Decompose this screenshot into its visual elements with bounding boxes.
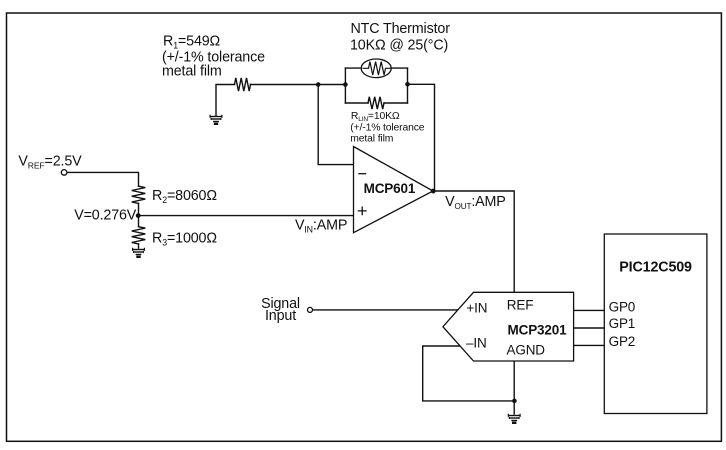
svg-text:VOUT:AMP: VOUT:AMP (445, 194, 506, 211)
wire R1 to thermistor loop (251, 84, 346, 86)
wire ADC -IN loop to ground node (423, 346, 515, 401)
svg-text:RLIN=10KΩ: RLIN=10KΩ (351, 111, 400, 123)
svg-text:R1=549Ω: R1=549Ω (163, 34, 221, 51)
svg-text:R2=8060Ω: R2=8060Ω (152, 188, 217, 205)
svg-text:+IN: +IN (466, 300, 487, 315)
wire thermistor loop top rail (345, 67, 407, 69)
node junction loop right (405, 82, 410, 87)
wire inverting input from node A (318, 85, 353, 165)
ground under R1 (210, 115, 222, 124)
svg-text:V=0.276V: V=0.276V (74, 208, 137, 224)
svg-text:R3=1000Ω: R3=1000Ω (152, 231, 217, 248)
wire feedback from loop to op-amp output (408, 84, 435, 191)
node A junction R1/inverting (316, 82, 321, 87)
svg-text:AGND: AGND (507, 342, 546, 357)
svg-text:(+/-1% tolerance: (+/-1% tolerance (350, 122, 424, 133)
wire VREF to R2 (67, 172, 139, 186)
svg-text:GP2: GP2 (609, 334, 636, 349)
svg-text:metal film: metal film (350, 134, 393, 145)
thermistor RT ellipse (361, 59, 391, 78)
op-amp inverting minus sign (358, 173, 366, 175)
terminal signal input open circle (308, 307, 313, 312)
op-amp non-inverting plus sign (358, 207, 367, 216)
svg-text:PIC12C509: PIC12C509 (619, 259, 692, 275)
terminal VREF open circle (61, 170, 67, 176)
node junction loop left (343, 82, 348, 87)
wire node V to R3 (138, 216, 140, 227)
wire GP0 pin (574, 309, 605, 311)
wire thermistor loop left branch (344, 68, 346, 103)
svg-text:Input: Input (265, 308, 296, 324)
svg-text:NTC Thermistor: NTC Thermistor (351, 21, 451, 37)
svg-text:GP0: GP0 (609, 299, 636, 314)
wire R3 to ground (138, 244, 140, 248)
MCU U3 PIC12C509 box (604, 234, 707, 414)
wire node V to op-amp non-inverting input (139, 215, 354, 217)
node V junction between R2 and R3 (136, 213, 141, 218)
node junction op-amp output (431, 189, 436, 194)
wire thermistor loop right branch (407, 68, 409, 103)
svg-text:REF: REF (507, 298, 534, 313)
wire R2 to node V (138, 203, 140, 215)
resistor RLIN (368, 97, 384, 109)
wire op-amp output to ADC REF (433, 191, 514, 292)
node junction AGND/-IN ground (512, 399, 517, 404)
svg-text:VIN:AMP: VIN:AMP (295, 218, 347, 235)
ground under ADC AGND (508, 414, 520, 423)
svg-text:GP1: GP1 (609, 316, 636, 331)
thermistor RT zigzag (363, 62, 391, 75)
op-amp U1 triangle (354, 147, 434, 233)
svg-text:metal film: metal film (162, 63, 222, 79)
svg-text:MCP3201: MCP3201 (508, 322, 568, 337)
svg-text:10KΩ @ 25(°C): 10KΩ @ 25(°C) (350, 37, 448, 53)
wire signal input to ADC (313, 309, 458, 311)
ground under R3 (133, 248, 145, 257)
resistor R2 (132, 186, 146, 203)
ADC U2 MCP3201 body (443, 292, 574, 361)
wire GP2 pin (574, 344, 605, 346)
svg-text:–IN: –IN (466, 335, 487, 350)
wire ADC AGND to ground (513, 361, 515, 414)
resistor R1 (235, 78, 251, 91)
wire GP1 pin (574, 327, 605, 329)
svg-text:MCP601: MCP601 (364, 181, 416, 196)
wire R1 left lead and drop to ground (216, 85, 235, 116)
resistor R3 (132, 227, 146, 244)
wire thermistor loop bottom rail (345, 102, 407, 104)
